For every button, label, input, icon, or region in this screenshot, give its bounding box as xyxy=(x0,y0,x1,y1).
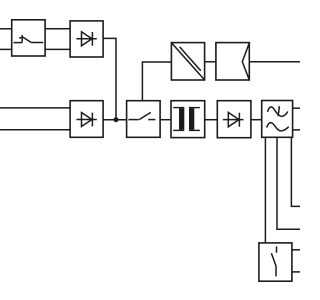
wire U1 out lower right xyxy=(293,129,300,131)
wire T1-G1 xyxy=(205,61,216,63)
rectifier diode V1 (top row) xyxy=(70,21,103,57)
wire U1 down right, to right edge xyxy=(291,137,300,206)
wire V2-Q2 xyxy=(103,119,127,121)
switch Q3 (output, bottom) xyxy=(259,243,292,281)
wire Q2-T2 xyxy=(160,119,171,121)
inverter U1 (double sine box) xyxy=(262,101,293,138)
wire Q3 out upper xyxy=(292,249,300,251)
wire U1 out upper right xyxy=(293,107,300,109)
rectifier diode V2 (second row) xyxy=(70,101,103,138)
wire U1 down mid, to right edge xyxy=(277,137,300,229)
wire Q1-V1 upper xyxy=(45,28,70,30)
switch Q2 (second row) xyxy=(127,101,161,138)
wire Q3 out lower xyxy=(292,271,300,273)
wire G1 to right edge xyxy=(249,61,300,63)
battery G1 (chevron box) xyxy=(216,43,249,80)
wire input L bottom xyxy=(0,107,70,109)
converter T1 (diagonal box) xyxy=(171,43,204,80)
wire converter feed xyxy=(142,62,171,101)
wire U1 down to Q3 xyxy=(264,137,266,243)
wire Q1-V1 lower xyxy=(45,48,70,50)
wire T2-V3 xyxy=(205,119,218,121)
wire input N top xyxy=(0,48,12,50)
wire V1 output down to DC bus xyxy=(103,38,116,119)
switch Q1 (input breaker, top row) xyxy=(12,20,45,56)
wire input N bottom xyxy=(0,129,70,131)
wire V3-U1 xyxy=(251,119,262,121)
transformer T2 xyxy=(171,101,205,138)
junction node DC bus xyxy=(114,117,119,122)
diode V3 (second row) xyxy=(217,101,251,138)
wire input L top xyxy=(0,28,12,30)
